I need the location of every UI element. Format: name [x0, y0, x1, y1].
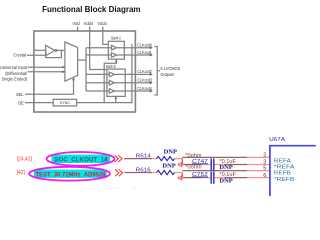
stub C752 right	[214, 177, 224, 179]
svg-text:Functional Block Diagram: Functional Block Diagram	[42, 5, 140, 14]
stub R614 left	[152, 158, 157, 160]
output bracket	[154, 47, 157, 95]
arrowhead CLKout3	[150, 81, 153, 84]
wire buffer to mux	[57, 49, 65, 51]
buffer A2	[112, 53, 117, 58]
stub R616 left	[152, 172, 157, 174]
buffer B1	[109, 72, 114, 77]
svg-text:DNP: DNP	[162, 163, 176, 169]
arrowhead CLKout4	[150, 90, 153, 93]
wire bank A enable	[104, 60, 116, 103]
stub pin 5	[247, 170, 270, 172]
svg-text:5 LVCMOS: 5 LVCMOS	[161, 66, 181, 71]
arrowhead CLKout0	[150, 46, 153, 49]
resistor R616	[157, 170, 175, 174]
wire row3 junction to pin5	[182, 170, 247, 172]
buffer B3	[109, 89, 114, 94]
wire CLKout4	[114, 90, 150, 92]
stub C752 left	[201, 177, 210, 179]
refdes C752	[192, 172, 208, 178]
Vdd power stub	[77, 27, 79, 31]
svg-text:Universal Input: Universal Input	[0, 65, 28, 70]
svg-text:DNP: DNP	[164, 149, 178, 155]
svg-text:5: 5	[263, 166, 266, 172]
crystal buffer amp	[46, 45, 55, 56]
wire universal input N	[28, 71, 65, 73]
svg-text:CLKout1: CLKout1	[137, 50, 152, 55]
net label SOC_CLKOUT_18	[47, 152, 115, 166]
wire row2 cap to pin3	[224, 164, 247, 166]
Vddo wire to Bank B	[90, 27, 107, 70]
svg-text:SYNC: SYNC	[60, 101, 71, 105]
net label TEST_30.72MHz_AD9528	[29, 167, 110, 181]
svg-text:REFB: REFB	[274, 171, 291, 177]
arrowhead CLKout2	[150, 73, 153, 76]
arrowhead universal P at mux	[62, 66, 65, 69]
svg-text:*REFB: *REFB	[274, 177, 295, 183]
outer IC boundary box	[34, 31, 135, 112]
IC U67A box	[270, 146, 316, 196]
svg-text:U67A: U67A	[269, 137, 285, 143]
stub pin 6	[247, 177, 270, 179]
wire crystal input XOUT	[27, 54, 46, 56]
mux	[65, 42, 78, 81]
stub C747 left	[201, 164, 210, 166]
wire row2 to cap C747	[183, 164, 201, 166]
refdes C747	[192, 159, 208, 165]
svg-text:.:..:...:: .:..:...:	[107, 186, 118, 190]
svg-text:R616: R616	[136, 168, 151, 174]
svg-text:SOC_CLKOUT_18: SOC_CLKOUT_18	[54, 156, 108, 163]
stub pin 3	[247, 164, 270, 166]
wire OE	[25, 102, 53, 104]
junction jogs (bright red)	[181, 159, 183, 178]
wire to bank B buf3	[86, 90, 109, 92]
wire row1 junction to pin2	[182, 156, 247, 158]
svg-text:(Differential/: (Differential/	[5, 71, 28, 76]
net wires (maroon)	[124, 157, 247, 177]
resistor R614	[157, 157, 175, 161]
capacitor C752	[211, 172, 214, 184]
svg-text:Crystal: Crystal	[13, 53, 26, 58]
svg-text:CLKout3: CLKout3	[137, 78, 152, 83]
stub R616 right	[175, 172, 183, 174]
svg-text:[24,42]: [24,42]	[17, 157, 33, 163]
wire CLKout0	[117, 47, 151, 49]
arrowhead bank A enable	[115, 59, 117, 62]
svg-text:Vddo: Vddo	[97, 21, 107, 26]
svg-text:Outputs: Outputs	[161, 72, 175, 77]
SYNC block	[53, 99, 76, 106]
wire clock distribution vertical	[85, 48, 87, 91]
stub arrow row2	[178, 162, 181, 167]
wire row1 net SOC_CLKOUT_18	[124, 158, 152, 160]
wire bank B enable	[115, 97, 117, 102]
arrowhead universal N at mux	[62, 71, 65, 74]
svg-text:Vdd: Vdd	[72, 21, 80, 26]
tiny red annotation	[107, 186, 136, 190]
wire to bank A buf1	[86, 47, 112, 49]
svg-text:6: 6	[263, 173, 266, 179]
wire CLKout3	[114, 82, 150, 84]
wire universal input P	[28, 66, 65, 68]
svg-text:Bank B: Bank B	[106, 64, 116, 69]
svg-text:DNP: DNP	[219, 165, 233, 171]
wire CLKout2	[114, 73, 150, 75]
svg-text:CLKout4: CLKout4	[137, 86, 152, 91]
svg-text:2: 2	[263, 152, 266, 158]
wire to bank A buf2	[86, 54, 112, 56]
svg-text:*REFA: *REFA	[274, 164, 295, 170]
svg-text:.:..: .:..	[132, 186, 137, 190]
svg-text:R614: R614	[136, 154, 151, 160]
wire SEL	[25, 78, 74, 94]
wire row3 net TEST_30.72MHz	[125, 172, 153, 174]
wire jog row1 to row2	[181, 159, 183, 165]
stub C747 right	[214, 164, 224, 166]
wire CLKout1	[117, 54, 151, 56]
stub pin 2	[247, 156, 270, 158]
svg-text:CLKout0: CLKout0	[137, 43, 152, 48]
stub arrow row4	[178, 175, 181, 180]
wire row4 cap to pin6	[224, 177, 247, 179]
wire to bank B buf1	[86, 73, 109, 75]
svg-text:*0ohm: *0ohm	[185, 165, 201, 171]
arrowhead CLKout1	[150, 54, 153, 57]
component pin stubs (salmon)	[152, 157, 270, 177]
svg-text:Single Ended): Single Ended)	[1, 76, 27, 81]
capacitor C747	[211, 158, 214, 170]
Bank B box	[107, 69, 125, 96]
svg-text:SEL: SEL	[16, 92, 24, 97]
chevron out 1	[115, 155, 123, 162]
wire jog row3 to row4	[181, 173, 183, 178]
svg-text:OE: OE	[18, 100, 24, 105]
arrowhead SEL	[72, 78, 75, 81]
wire mux output	[78, 59, 86, 61]
buffer B2	[109, 80, 114, 85]
svg-text:CLKout2: CLKout2	[137, 69, 152, 74]
wire crystal input XIN	[34, 49, 46, 51]
svg-text:[42]: [42]	[17, 170, 26, 176]
svg-text:DNP: DNP	[219, 179, 233, 185]
svg-text:TEST_30.72MHz_AD9528: TEST_30.72MHz_AD9528	[36, 171, 106, 178]
buffer A1	[112, 45, 117, 50]
chevron out 2	[115, 169, 123, 176]
svg-text:Vddo: Vddo	[84, 21, 94, 26]
Vddo wire to Bank A	[103, 27, 109, 45]
wire row4 to cap C752	[183, 177, 201, 179]
stub R614 right	[175, 158, 183, 160]
svg-text:Bank A: Bank A	[111, 36, 121, 41]
svg-text:*0.1uF: *0.1uF	[219, 172, 236, 178]
arrowhead bank B enable	[115, 96, 117, 99]
svg-text:3: 3	[263, 160, 266, 166]
Bank A box	[108, 41, 124, 59]
wire sync routing	[77, 44, 132, 103]
wire crystal feedback	[46, 50, 62, 57]
wire to bank B buf2	[86, 82, 109, 84]
